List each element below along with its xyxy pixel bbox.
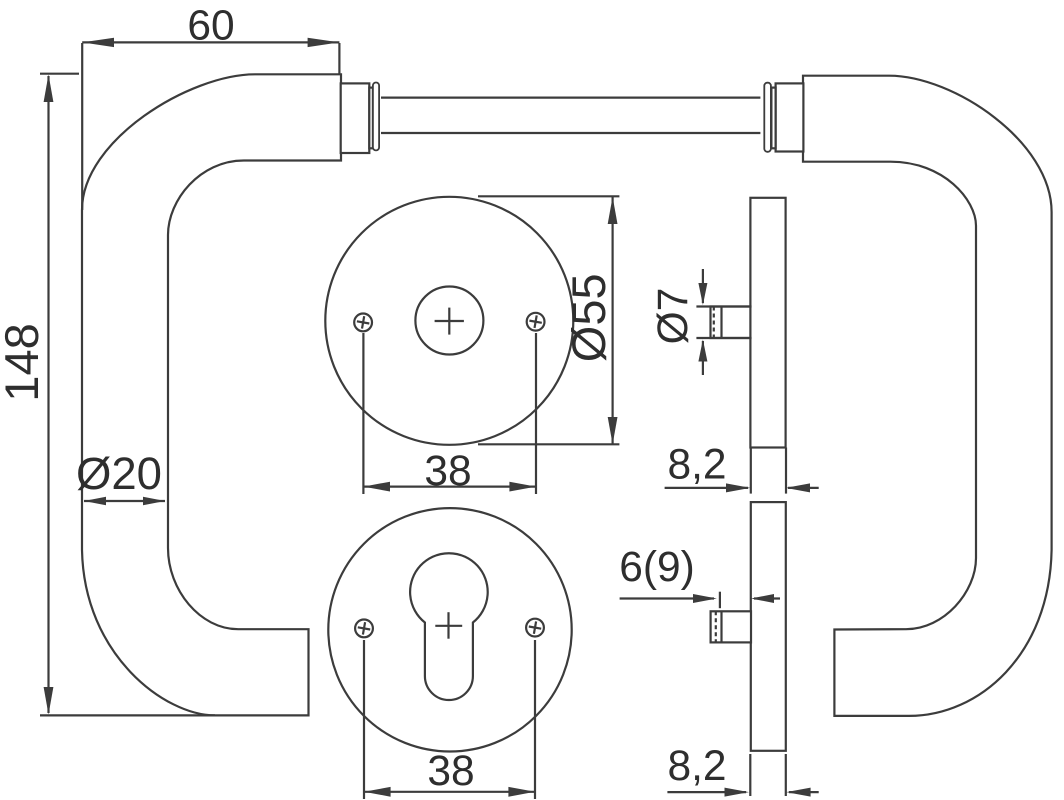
svg-text:148: 148 <box>0 323 48 401</box>
svg-text:8,2: 8,2 <box>667 442 726 489</box>
svg-text:Ø7: Ø7 <box>650 288 697 345</box>
svg-text:Ø55: Ø55 <box>562 273 615 362</box>
svg-text:8,2: 8,2 <box>667 743 726 790</box>
svg-text:38: 38 <box>427 748 474 795</box>
svg-text:6(9): 6(9) <box>619 544 695 591</box>
svg-text:60: 60 <box>187 3 234 50</box>
svg-text:Ø20: Ø20 <box>76 448 162 499</box>
svg-text:38: 38 <box>424 448 471 495</box>
